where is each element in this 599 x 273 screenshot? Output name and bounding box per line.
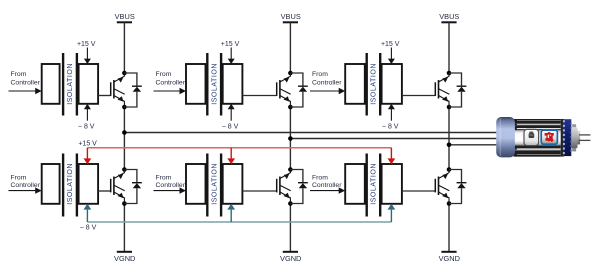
svg-text:ISOLATION: ISOLATION [67, 163, 74, 205]
isolation barrier bottom phase 3 [367, 154, 381, 217]
wire top IGBT emitter to phase node phase 2 [289, 107, 291, 139]
svg-text:Controller: Controller [312, 80, 342, 87]
svg-text:From: From [11, 71, 27, 78]
-8V teal rise and arrow into bottom driver phase 2 [227, 204, 235, 222]
wire controller input arrow bottom phase 1 [9, 187, 42, 193]
transistor Q1L (IGBT) [111, 170, 125, 204]
junction top IGBT collector phase 3 [447, 71, 452, 76]
svg-text:− 8 V: − 8 V [78, 123, 95, 130]
wire phase 3 output to motor [449, 144, 500, 146]
transistor Q3L (IGBT) [435, 170, 449, 204]
junction top IGBT collector phase 1 [122, 71, 127, 76]
transistor Q1H (IGBT) [111, 73, 125, 107]
svg-text:+15 V: +15 V [381, 41, 400, 48]
wire phase node to bottom IGBT collector phase 1 [123, 133, 125, 170]
svg-text:− 8 V: − 8 V [382, 123, 399, 130]
gate driver output-side block bottom phase 1 [79, 164, 99, 204]
+15V supply rail (red) for bottom drivers [87, 147, 391, 149]
svg-text:VGND: VGND [280, 254, 301, 263]
wire phase 2 output to motor [290, 138, 500, 140]
svg-text:Controller: Controller [156, 80, 186, 87]
gate driver input-side block bottom phase 1 [42, 164, 60, 204]
wire top IGBT emitter to phase node phase 3 [448, 107, 450, 145]
svg-text:ISOLATION: ISOLATION [211, 63, 218, 105]
+15V red drop and arrow into bottom driver phase 1 [84, 148, 92, 164]
-8V teal rise and arrow into bottom driver phase 1 [84, 204, 92, 222]
wire driver output to IGBT gate top phase 3 [402, 95, 435, 97]
-8V supply rail (teal) for bottom drivers [87, 221, 391, 223]
wire phase node to bottom IGBT collector phase 2 [289, 139, 291, 170]
label "From Controller" top phase 1 [11, 71, 41, 87]
VGND terminal tick phase 1 [117, 251, 132, 253]
wire controller input arrow top phase 3 [310, 88, 345, 94]
gate driver output-side block bottom phase 3 [382, 164, 402, 204]
svg-text:From: From [312, 175, 328, 182]
+15V red drop and arrow into bottom driver phase 3 [388, 148, 396, 164]
label "From Controller" bottom phase 1 [11, 175, 41, 190]
junction top IGBT emitter phase 1 [122, 105, 127, 110]
isolation barrier top phase 3 [367, 53, 381, 116]
svg-text:ISOLATION: ISOLATION [371, 63, 378, 105]
diode D3H (freewheeling) [449, 73, 466, 107]
-8V supply arrow top phase 3 [388, 104, 395, 121]
svg-text:From: From [156, 175, 172, 182]
isolation barrier bottom phase 2 [207, 154, 221, 217]
svg-text:− 8 V: − 8 V [80, 225, 97, 232]
wire controller input arrow top phase 2 [154, 88, 187, 94]
wire driver output to IGBT gate top phase 1 [98, 95, 111, 97]
junction top IGBT emitter phase 3 [447, 105, 452, 110]
isolation barrier bottom phase 1 [63, 154, 77, 217]
wire bottom IGBT emitter to VGND phase 3 [448, 204, 450, 252]
transistor Q2H (IGBT) [277, 73, 291, 107]
svg-text:ISOLATION: ISOLATION [211, 163, 218, 205]
isolation barrier top phase 2 [207, 53, 221, 116]
junction bottom IGBT collector phase 1 [122, 167, 127, 172]
wire driver output to IGBT gate bottom phase 3 [402, 190, 435, 192]
junction bottom IGBT emitter phase 1 [122, 201, 127, 206]
+15V supply arrow top phase 2 [228, 48, 235, 65]
label "From Controller" bottom phase 2 [156, 175, 186, 190]
diode D2L (freewheeling) [290, 170, 307, 204]
-8V teal rise and arrow into bottom driver phase 3 [388, 204, 396, 222]
junction bottom IGBT collector phase 3 [447, 167, 452, 172]
VBUS terminal tick phase 1 [117, 21, 132, 23]
junction top IGBT collector phase 2 [288, 71, 293, 76]
wire VBUS to top IGBT collector phase 3 [448, 22, 450, 73]
gate driver input-side block top phase 2 [186, 64, 206, 104]
VBUS terminal tick phase 2 [283, 21, 298, 23]
svg-text:− 8 V: − 8 V [222, 123, 239, 130]
svg-text:ISOLATION: ISOLATION [67, 63, 74, 105]
svg-text:ISOLATION: ISOLATION [371, 163, 378, 205]
gate driver output-side block top phase 2 [223, 64, 243, 104]
svg-text:VBUS: VBUS [439, 12, 459, 21]
junction bottom IGBT collector phase 2 [288, 167, 293, 172]
label "From Controller" top phase 2 [156, 71, 186, 87]
label "From Controller" bottom phase 3 [312, 175, 342, 190]
wire driver output to IGBT gate bottom phase 1 [98, 190, 111, 192]
gate driver input-side block bottom phase 2 [186, 164, 206, 204]
svg-text:VBUS: VBUS [281, 12, 301, 21]
wire top IGBT emitter to phase node phase 1 [123, 107, 125, 133]
gate driver output-side block bottom phase 2 [223, 164, 243, 204]
-8V supply arrow top phase 2 [228, 104, 235, 121]
svg-text:From: From [11, 175, 27, 182]
svg-text:From: From [312, 71, 328, 78]
gate driver output-side block top phase 1 [79, 64, 99, 104]
wire phase node to bottom IGBT collector phase 3 [448, 145, 450, 170]
VGND terminal tick phase 3 [441, 251, 456, 253]
+15V supply arrow top phase 1 [84, 48, 91, 65]
VGND terminal tick phase 2 [283, 251, 298, 253]
diode D2H (freewheeling) [290, 73, 307, 107]
svg-text:Controller: Controller [11, 80, 41, 87]
label "From Controller" top phase 3 [312, 71, 342, 87]
+15V red drop and arrow into bottom driver phase 2 [227, 148, 235, 164]
junction bottom IGBT emitter phase 2 [288, 201, 293, 206]
junction phase output node phase 2 [288, 136, 293, 141]
wire controller input arrow bottom phase 3 [310, 187, 345, 193]
gate driver output-side block top phase 3 [382, 64, 402, 104]
gate driver input-side block top phase 3 [345, 64, 365, 104]
wire driver output to IGBT gate top phase 2 [242, 95, 276, 97]
svg-text:From: From [156, 71, 172, 78]
svg-text:VGND: VGND [114, 254, 135, 263]
junction top IGBT emitter phase 2 [288, 105, 293, 110]
junction phase output node phase 3 [447, 143, 452, 148]
junction bottom IGBT emitter phase 3 [447, 201, 452, 206]
transistor Q2L (IGBT) [277, 170, 291, 204]
junction phase output node phase 1 [122, 130, 127, 135]
motor (three-phase AC motor, 3D rendering) [496, 117, 590, 157]
VBUS terminal tick phase 3 [441, 21, 456, 23]
wire controller input arrow bottom phase 2 [154, 187, 187, 193]
svg-text:Controller: Controller [156, 182, 186, 189]
svg-text:+15 V: +15 V [77, 41, 96, 48]
+15V supply arrow top phase 3 [388, 48, 395, 65]
diode D1H (freewheeling) [124, 73, 141, 107]
wire bottom IGBT emitter to VGND phase 2 [289, 204, 291, 252]
-8V supply arrow top phase 1 [84, 104, 91, 121]
svg-text:+15 V: +15 V [221, 41, 240, 48]
wire VBUS to top IGBT collector phase 1 [123, 22, 125, 73]
gate driver input-side block bottom phase 3 [345, 164, 365, 204]
wire bottom IGBT emitter to VGND phase 1 [123, 204, 125, 252]
transistor Q3H (IGBT) [435, 73, 449, 107]
isolation barrier top phase 1 [63, 53, 77, 116]
wire VBUS to top IGBT collector phase 2 [289, 22, 291, 73]
svg-text:+15 V: +15 V [78, 140, 97, 147]
diode D3L (freewheeling) [449, 170, 466, 204]
svg-text:VGND: VGND [439, 254, 460, 263]
svg-text:Controller: Controller [312, 182, 342, 189]
wire driver output to IGBT gate bottom phase 2 [242, 190, 276, 192]
diode D1L (freewheeling) [124, 170, 141, 204]
svg-text:VBUS: VBUS [115, 12, 135, 21]
gate driver input-side block top phase 1 [42, 64, 60, 104]
wire phase 1 output to motor [124, 132, 500, 134]
wire controller input arrow top phase 1 [9, 88, 42, 94]
